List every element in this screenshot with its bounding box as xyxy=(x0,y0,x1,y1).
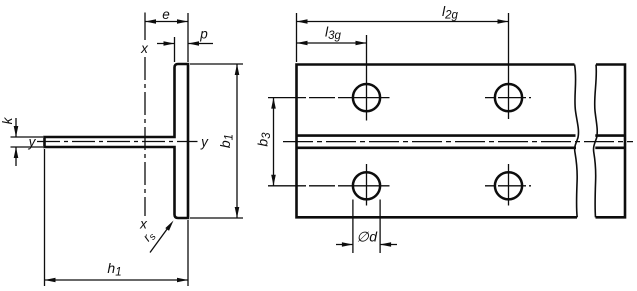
axis x (vertical dash-dot centroid axis) xyxy=(144,13,146,217)
svg-text:h1: h1 xyxy=(107,260,121,279)
T-profile outline xyxy=(45,64,189,218)
svg-text:p: p xyxy=(199,27,208,42)
dimension l2g xyxy=(297,13,509,62)
plate centerline xyxy=(283,141,633,143)
svg-text:x: x xyxy=(140,41,149,56)
hole A (top-left) xyxy=(353,84,380,111)
svg-text:l3g: l3g xyxy=(325,24,342,43)
plate outline right part xyxy=(596,65,626,218)
dimension b1 xyxy=(190,64,243,218)
svg-text:l2g: l2g xyxy=(442,3,459,22)
leader r_s xyxy=(150,229,168,253)
hole C (bottom-left) xyxy=(353,172,380,199)
dimension k xyxy=(11,118,44,166)
svg-text:b1: b1 xyxy=(217,134,236,148)
dimension e xyxy=(145,13,188,62)
joint line upper xyxy=(297,134,576,137)
dimension p xyxy=(157,37,213,62)
svg-text:y: y xyxy=(200,135,209,150)
axis y (horizontal dash-dot) xyxy=(37,141,198,143)
hole D (bottom-right) xyxy=(495,172,522,199)
svg-text:e: e xyxy=(162,7,170,22)
joint line lower xyxy=(297,147,577,150)
svg-text:∅d: ∅d xyxy=(357,229,379,245)
svg-text:k: k xyxy=(0,116,15,124)
dimension b3 xyxy=(273,98,275,186)
break squiggle 1 xyxy=(575,65,579,218)
svg-text:b3: b3 xyxy=(254,132,273,147)
break squiggle 2 xyxy=(594,65,598,218)
dimension diameter d xyxy=(336,200,397,254)
dimension h1 xyxy=(45,149,189,286)
hole B (top-right) xyxy=(495,84,522,111)
svg-text:x: x xyxy=(139,217,148,232)
plate outline left part xyxy=(297,65,578,218)
dimension l3g xyxy=(297,42,367,44)
